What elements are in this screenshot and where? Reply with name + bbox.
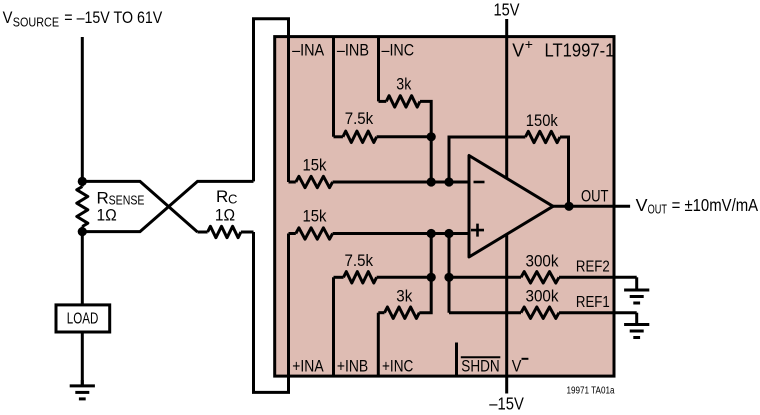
svg-text:–INB: –INB — [337, 40, 369, 59]
svg-text:150k: 150k — [526, 111, 558, 130]
op-amp A1 — [469, 156, 553, 258]
wire vertical A lower (+in node down) — [430, 234, 433, 278]
svg-text:R: R — [216, 187, 228, 206]
pin label SHDN with overline — [461, 357, 501, 375]
wire LOAD to ground — [81, 332, 84, 386]
svg-text:V: V — [512, 39, 525, 60]
node +in B — [444, 229, 453, 238]
node VSOURCE label — [3, 8, 163, 30]
svg-text:V: V — [3, 8, 13, 27]
node VOUT label — [636, 195, 759, 217]
pin -INB wire — [332, 37, 335, 137]
wire V- supply — [505, 235, 508, 394]
pin +INB wire — [332, 277, 335, 376]
svg-text:–INC: –INC — [382, 40, 415, 59]
resistor 300k to REF2 — [449, 251, 637, 283]
svg-text:REF1: REF1 — [576, 294, 610, 311]
svg-text:LT1997-1: LT1997-1 — [545, 39, 615, 60]
svg-text:15k: 15k — [303, 207, 327, 226]
resistor 7.5k upper — [334, 109, 432, 142]
wire vertical B lower (+in node to REF resistors) — [448, 234, 451, 313]
svg-text:C: C — [228, 191, 237, 206]
svg-text:–15V: –15V — [489, 394, 524, 414]
pin label V- — [512, 356, 529, 375]
resistor 300k to REF1 — [449, 287, 637, 319]
svg-text:V: V — [512, 356, 522, 375]
svg-text:1Ω: 1Ω — [97, 205, 117, 224]
svg-text:OUT: OUT — [648, 202, 667, 217]
svg-text:SHDN: SHDN — [461, 358, 499, 376]
pin -INC wire — [377, 37, 380, 102]
resistor 15k lower (+INA to +in node) — [289, 207, 470, 240]
svg-text:OUT: OUT — [581, 186, 609, 205]
wire OUT — [553, 205, 630, 208]
svg-text:300k: 300k — [526, 251, 559, 270]
ground at REF2 — [624, 277, 649, 303]
wire bottom staple: RC signal routed under chip bottom to +INA — [254, 232, 289, 392]
resistor 3k upper — [379, 74, 432, 136]
svg-text:+INC: +INC — [382, 356, 413, 375]
node junction 3k/7.5k upper — [427, 132, 436, 141]
LT1997-1 chip body U1 — [275, 37, 614, 377]
wire RSENSE to LOAD — [81, 232, 84, 305]
svg-text:SOURCE: SOURCE — [13, 16, 59, 30]
pin SHDN stub — [455, 343, 458, 377]
resistor 3k lower — [378, 277, 431, 318]
node +in A — [427, 229, 436, 238]
node junction 7.5k/3k lower — [427, 273, 436, 282]
svg-text:+: + — [525, 36, 533, 52]
svg-text:LOAD: LOAD — [67, 311, 99, 328]
wire bottom crossover: bottom of RSENSE diagonally up — [82, 181, 253, 231]
svg-text:7.5k: 7.5k — [345, 251, 374, 270]
svg-text:15k: 15k — [303, 155, 327, 174]
load box — [56, 305, 110, 332]
wire top crossover: top of RSENSE diagonally down to RC — [82, 181, 197, 232]
node top of RSENSE junction — [78, 177, 87, 186]
wire junction down to -in node — [430, 137, 433, 182]
svg-text:REF2: REF2 — [576, 259, 610, 276]
node -in A — [427, 177, 436, 186]
svg-text:15V: 15V — [494, 0, 520, 20]
resistor RSENSE — [77, 181, 145, 231]
svg-text:7.5k: 7.5k — [345, 109, 374, 128]
resistor 15k upper (-INA to -in node) — [289, 155, 470, 187]
svg-text:3k: 3k — [396, 74, 411, 93]
svg-text:+INB: +INB — [337, 356, 368, 375]
pin +INC wire — [377, 313, 380, 376]
svg-text:300k: 300k — [526, 287, 559, 306]
svg-text:–INA: –INA — [292, 40, 325, 59]
svg-text:= –15V TO 61V: = –15V TO 61V — [64, 8, 163, 27]
wire VSOURCE vertical — [81, 37, 84, 181]
svg-text:= ±10mV/mA: = ±10mV/mA — [672, 195, 759, 215]
node bottom of RSENSE junction — [78, 227, 87, 236]
svg-text:3k: 3k — [396, 287, 412, 306]
node -in B — [444, 177, 453, 186]
resistor 150k feedback — [449, 111, 569, 206]
svg-text:19971 TA01a: 19971 TA01a — [567, 385, 615, 396]
node REF2 tap — [444, 273, 453, 282]
svg-text:1Ω: 1Ω — [215, 205, 235, 224]
node OUT junction — [564, 202, 573, 211]
resistor 7.5k lower — [334, 251, 432, 283]
pin label V+ — [512, 36, 533, 60]
svg-text:+INA: +INA — [292, 356, 324, 375]
ground at REF1 — [624, 313, 649, 338]
resistor RC — [198, 187, 254, 238]
ground below LOAD — [70, 380, 95, 399]
wire V+ supply — [505, 19, 508, 178]
wire top staple: load-side signal routed over chip top to -INA — [254, 19, 289, 182]
svg-text:V: V — [636, 195, 648, 215]
